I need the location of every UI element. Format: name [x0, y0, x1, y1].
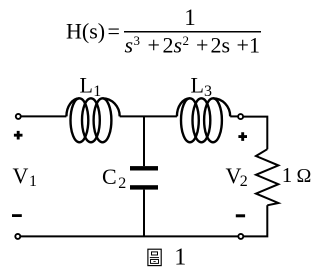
- wire L3 to terminal: [230, 115, 238, 117]
- label C2: [102, 164, 126, 192]
- svg-text:s: s: [125, 33, 134, 58]
- inductor L3: [177, 98, 230, 142]
- capacitor C2 bottom plate: [130, 185, 158, 189]
- svg-text:2: 2: [183, 33, 190, 48]
- svg-text:+: +: [196, 33, 208, 58]
- resistor R 1 ohm zigzag: [256, 149, 278, 205]
- wire top-left segment: [21, 115, 66, 117]
- svg-text:C: C: [102, 164, 117, 189]
- label L3: [191, 73, 213, 100]
- wire resistor to bottom-right corner: [244, 205, 268, 236]
- terminal bottom-right: [238, 234, 243, 239]
- svg-text:+: +: [237, 33, 249, 58]
- wire top to capacitor: [143, 116, 145, 166]
- svg-text:L: L: [191, 73, 204, 98]
- svg-text:H(s): H(s): [66, 19, 105, 44]
- svg-text:3: 3: [134, 33, 141, 48]
- plus sign right: [238, 132, 247, 141]
- inductor L1: [66, 98, 119, 142]
- terminal top-right: [238, 114, 243, 119]
- svg-text:1: 1: [29, 173, 37, 190]
- terminal top-left: [16, 114, 21, 119]
- svg-text:+: +: [148, 33, 160, 58]
- svg-text:1: 1: [282, 163, 293, 187]
- label L1: [80, 73, 102, 100]
- label V2: [226, 163, 248, 190]
- svg-text:2: 2: [240, 173, 248, 190]
- label V1: [13, 163, 38, 190]
- svg-text:s: s: [174, 33, 183, 58]
- terminal bottom-left: [15, 234, 20, 239]
- wire between L1 and L3: [120, 115, 177, 117]
- label 1 ohm: [282, 163, 312, 187]
- svg-text:2: 2: [163, 33, 174, 58]
- svg-text:2: 2: [211, 33, 222, 58]
- svg-text:V: V: [13, 163, 29, 188]
- plus sign left: [14, 131, 23, 140]
- svg-text:L: L: [80, 73, 93, 98]
- wire capacitor to bottom: [143, 190, 145, 237]
- svg-text:1: 1: [93, 83, 101, 100]
- svg-text:1: 1: [174, 244, 186, 270]
- svg-text:3: 3: [204, 83, 212, 100]
- minus sign right: [236, 214, 245, 217]
- capacitor C2 top plate: [130, 166, 158, 170]
- minus sign left: [12, 214, 22, 217]
- svg-text:1: 1: [249, 33, 260, 58]
- svg-text:1: 1: [184, 5, 196, 30]
- equation fraction bar: [124, 31, 261, 33]
- wire bottom: [21, 235, 238, 237]
- caption glyph tu (figure): [148, 249, 161, 265]
- svg-text:2: 2: [118, 175, 126, 192]
- svg-text:s: s: [222, 33, 231, 58]
- wire terminal to top-right corner: [244, 117, 268, 150]
- svg-text:Ω: Ω: [297, 165, 312, 187]
- svg-text:=: =: [108, 19, 120, 44]
